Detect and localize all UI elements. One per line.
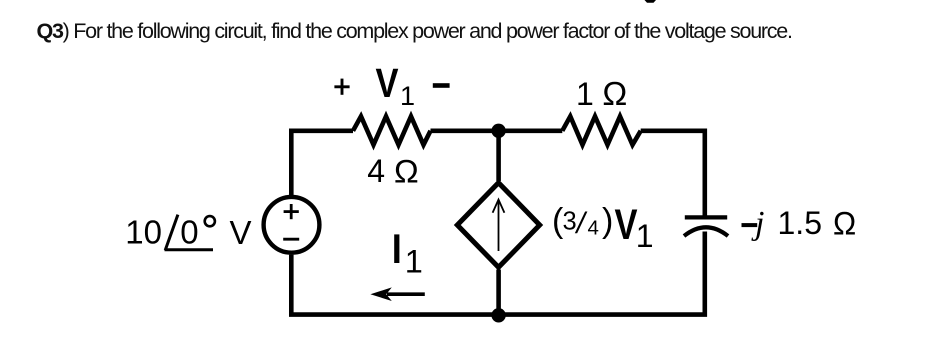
svg-text:Q3) For the following circuit,: Q3) For the following circuit, find the … — [37, 19, 792, 43]
label 4 ohm — [367, 153, 419, 189]
voltage source VS circle — [264, 197, 320, 253]
label plus sign of V1 — [334, 79, 349, 95]
voltage source minus sign — [283, 238, 299, 241]
svg-text:3: 3 — [563, 208, 577, 236]
wire middle branch upper — [496, 131, 501, 181]
svg-text:Ω: Ω — [833, 206, 856, 242]
node A dot — [491, 124, 505, 138]
capacitor C1 top plate — [685, 215, 727, 219]
svg-text:1: 1 — [400, 81, 415, 111]
wire top-left and left rail upper — [291, 131, 353, 196]
svg-text:4: 4 — [588, 217, 599, 240]
partial glyph from cropped line above — [645, 0, 657, 3]
label 10 angle 0 deg V — [125, 213, 251, 251]
dependent source U1 diamond — [457, 183, 539, 268]
wire middle branch lower — [496, 270, 501, 315]
label 1 ohm — [576, 75, 627, 112]
voltage source plus sign — [284, 204, 299, 219]
capacitor C1 curved plate — [684, 227, 728, 236]
wire top middle (node A span) — [431, 129, 563, 134]
svg-text:): ) — [602, 202, 613, 240]
label V1 with minus sign — [376, 60, 450, 111]
svg-text:1: 1 — [636, 218, 654, 254]
svg-text:V: V — [615, 201, 638, 249]
svg-text:V: V — [230, 214, 252, 251]
svg-text:0: 0 — [180, 213, 198, 250]
svg-text:4: 4 — [367, 153, 385, 189]
degree ring — [205, 216, 215, 226]
svg-text:1: 1 — [576, 76, 594, 112]
svg-text:10: 10 — [125, 214, 162, 251]
svg-text:Ω: Ω — [602, 75, 627, 112]
svg-text:V: V — [376, 60, 399, 106]
question text — [37, 19, 792, 43]
resistor R2 1ohm — [562, 116, 640, 145]
wire top-right and right rail upper — [641, 131, 705, 216]
svg-text:1: 1 — [405, 244, 423, 280]
svg-text:Ω: Ω — [394, 153, 419, 189]
resistor R1 4ohm — [353, 116, 431, 145]
angle symbol underline — [165, 248, 214, 251]
node B dot — [491, 308, 505, 322]
angle symbol slash — [165, 215, 178, 251]
wire right rail lower and bottom-right — [499, 232, 705, 315]
label -j 1.5 ohm — [742, 205, 857, 242]
label I1 current — [394, 234, 423, 279]
dependent source arrow up — [493, 200, 505, 251]
svg-text:1.5: 1.5 — [778, 205, 822, 241]
current I1 arrow — [370, 287, 424, 301]
wire left rail lower and bottom-left — [291, 255, 498, 315]
label (3/4)V1 — [552, 201, 654, 254]
